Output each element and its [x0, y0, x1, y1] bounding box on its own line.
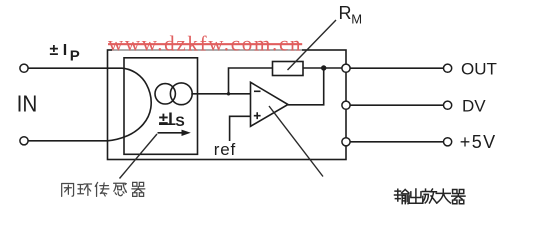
svg-text:IN: IN	[17, 90, 38, 116]
svg-text:OUT: OUT	[461, 60, 497, 79]
svg-text:M: M	[351, 12, 362, 27]
svg-text:±I: ±I	[159, 109, 173, 128]
svg-text:+5V: +5V	[460, 132, 497, 152]
svg-text:www.dzkfw.com.cn: www.dzkfw.com.cn	[108, 32, 302, 56]
svg-text:± I: ± I	[50, 42, 68, 59]
svg-text:DV: DV	[462, 97, 486, 116]
svg-text:ref: ref	[214, 140, 236, 159]
svg-text:S: S	[175, 113, 184, 129]
svg-text:R: R	[339, 3, 352, 23]
svg-text:P: P	[70, 47, 80, 64]
